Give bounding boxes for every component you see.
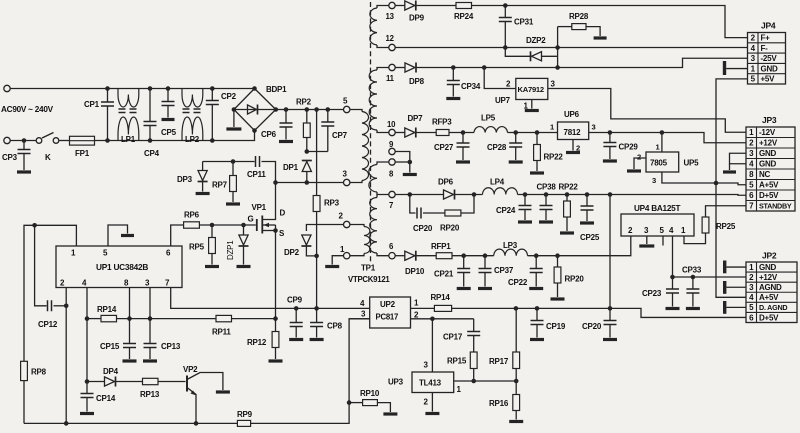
svg-text:D+5V: D+5V xyxy=(759,191,779,200)
svg-text:DP2: DP2 xyxy=(284,248,300,257)
svg-text:RP10: RP10 xyxy=(360,389,380,398)
svg-text:CP28: CP28 xyxy=(487,143,507,152)
svg-text:RP22: RP22 xyxy=(544,153,564,162)
svg-text:CP12: CP12 xyxy=(38,320,58,329)
svg-text:CP22: CP22 xyxy=(508,278,528,287)
svg-text:CP24: CP24 xyxy=(496,206,516,215)
svg-text:CP17: CP17 xyxy=(443,333,463,342)
svg-text:DP9: DP9 xyxy=(409,14,425,23)
svg-text:STANDBY: STANDBY xyxy=(759,202,792,211)
svg-text:GND: GND xyxy=(759,160,777,169)
svg-text:VP2: VP2 xyxy=(183,365,198,374)
svg-text:CP1: CP1 xyxy=(84,100,100,109)
svg-text:RP24: RP24 xyxy=(454,12,474,21)
svg-text:GND: GND xyxy=(761,64,779,73)
svg-text:3: 3 xyxy=(592,123,596,132)
svg-text:AGND: AGND xyxy=(759,283,782,292)
svg-text:-12V: -12V xyxy=(759,128,776,137)
svg-text:CP31: CP31 xyxy=(514,18,534,27)
svg-text:CP29: CP29 xyxy=(619,143,639,152)
svg-text:CP6: CP6 xyxy=(261,130,277,139)
svg-text:RP25: RP25 xyxy=(716,222,736,231)
svg-text:2: 2 xyxy=(637,153,641,162)
svg-text:CP14: CP14 xyxy=(96,394,116,403)
svg-text:RFP1: RFP1 xyxy=(431,242,451,251)
svg-text:RP12: RP12 xyxy=(247,338,267,347)
svg-text:RP20: RP20 xyxy=(440,224,460,233)
svg-text:TP1: TP1 xyxy=(361,264,376,273)
svg-text:DP7: DP7 xyxy=(408,114,424,123)
svg-text:LP3: LP3 xyxy=(503,241,518,250)
svg-text:CP9: CP9 xyxy=(287,296,303,305)
svg-text:RP20: RP20 xyxy=(565,275,585,284)
svg-text:RP2: RP2 xyxy=(296,98,312,107)
svg-text:UP1 UC3842B: UP1 UC3842B xyxy=(96,262,148,272)
svg-text:CP20: CP20 xyxy=(413,224,433,233)
svg-text:RP17: RP17 xyxy=(489,357,509,366)
svg-text:D. AGND: D. AGND xyxy=(759,303,787,312)
svg-text:TL413: TL413 xyxy=(419,379,442,388)
svg-text:D: D xyxy=(280,209,286,218)
svg-text:DP3: DP3 xyxy=(177,175,193,184)
svg-text:DP1: DP1 xyxy=(283,163,299,172)
svg-text:CP34: CP34 xyxy=(461,82,481,91)
svg-text:GND: GND xyxy=(759,263,777,272)
svg-text:JP3: JP3 xyxy=(762,115,777,125)
svg-text:LP2: LP2 xyxy=(185,135,200,144)
svg-text:DZP2: DZP2 xyxy=(526,36,546,45)
svg-text:13: 13 xyxy=(386,12,395,21)
svg-text:DZP1: DZP1 xyxy=(226,240,235,260)
svg-text:K: K xyxy=(45,153,51,162)
svg-text:UP6: UP6 xyxy=(564,110,580,119)
svg-text:KA7912: KA7912 xyxy=(518,85,544,94)
svg-text:RP8: RP8 xyxy=(31,368,47,377)
svg-text:7812: 7812 xyxy=(564,128,582,137)
svg-text:RP11: RP11 xyxy=(212,328,231,337)
svg-text:UP2: UP2 xyxy=(380,300,396,309)
svg-text:PC817: PC817 xyxy=(376,313,399,322)
svg-text:CP3: CP3 xyxy=(2,153,18,162)
svg-text:LP4: LP4 xyxy=(490,178,505,187)
svg-text:CP25: CP25 xyxy=(580,233,600,242)
svg-text:RP22: RP22 xyxy=(559,183,579,192)
svg-text:VP1: VP1 xyxy=(252,203,267,212)
svg-text:CP20: CP20 xyxy=(582,322,602,331)
svg-text:RP16: RP16 xyxy=(489,399,509,408)
svg-text:7805: 7805 xyxy=(650,159,668,168)
svg-text:+12V: +12V xyxy=(759,139,778,148)
svg-text:12: 12 xyxy=(386,34,395,43)
svg-text:RP13: RP13 xyxy=(140,390,160,399)
svg-text:UP3: UP3 xyxy=(388,378,404,387)
svg-text:11: 11 xyxy=(386,74,395,83)
svg-text:GND: GND xyxy=(759,149,777,158)
svg-text:LP5: LP5 xyxy=(481,114,496,123)
svg-text:CP4: CP4 xyxy=(144,149,160,158)
svg-text:A+5V: A+5V xyxy=(759,293,779,302)
svg-text:CP23: CP23 xyxy=(642,289,662,298)
svg-text:G: G xyxy=(248,215,254,224)
svg-text:RP7: RP7 xyxy=(212,181,228,190)
svg-text:RP14: RP14 xyxy=(97,305,117,314)
svg-text:DP8: DP8 xyxy=(409,77,425,86)
svg-text:CP11: CP11 xyxy=(247,170,266,179)
svg-text:CP15: CP15 xyxy=(100,342,120,351)
svg-text:UP7: UP7 xyxy=(495,96,511,105)
svg-text:D+5V: D+5V xyxy=(759,313,779,322)
svg-text:F-: F- xyxy=(761,44,769,53)
svg-text:CP33: CP33 xyxy=(682,266,702,275)
svg-text:DP10: DP10 xyxy=(405,267,425,276)
svg-text:CP5: CP5 xyxy=(161,128,177,137)
svg-text:CP21: CP21 xyxy=(434,270,454,279)
svg-text:-25V: -25V xyxy=(761,54,778,63)
svg-text:CP37: CP37 xyxy=(494,266,514,275)
svg-text:A+5V: A+5V xyxy=(759,181,779,190)
svg-text:CP7: CP7 xyxy=(332,131,348,140)
svg-text:7: 7 xyxy=(389,201,393,210)
svg-text:NC: NC xyxy=(759,170,771,179)
svg-text:DP4: DP4 xyxy=(103,367,119,376)
svg-text:10: 10 xyxy=(387,120,396,129)
svg-text:+12V: +12V xyxy=(759,273,778,282)
svg-text:RP28: RP28 xyxy=(569,12,589,21)
svg-text:JP2: JP2 xyxy=(762,251,777,261)
svg-text:F+: F+ xyxy=(761,33,771,42)
svg-text:RP15: RP15 xyxy=(447,357,467,366)
svg-text:CP2: CP2 xyxy=(221,92,237,101)
svg-text:RP5: RP5 xyxy=(189,243,205,252)
svg-text:3: 3 xyxy=(652,176,656,185)
svg-text:VTPCK9121: VTPCK9121 xyxy=(348,275,390,284)
svg-text:CP27: CP27 xyxy=(434,143,454,152)
svg-text:UP4 BA125T: UP4 BA125T xyxy=(634,204,680,213)
svg-text:RP6: RP6 xyxy=(184,211,200,220)
svg-text:RFP3: RFP3 xyxy=(432,118,452,127)
svg-text:LP1: LP1 xyxy=(121,135,136,144)
svg-text:CP8: CP8 xyxy=(327,322,343,331)
svg-text:DP6: DP6 xyxy=(438,178,454,187)
svg-text:RP3: RP3 xyxy=(324,199,340,208)
svg-text:AC90V ~ 240V: AC90V ~ 240V xyxy=(1,105,54,114)
svg-text:CP13: CP13 xyxy=(161,342,181,351)
svg-text:BDP1: BDP1 xyxy=(266,85,287,94)
svg-text:FP1: FP1 xyxy=(75,149,90,158)
svg-text:RP9: RP9 xyxy=(237,410,253,419)
svg-text:CP19: CP19 xyxy=(546,322,566,331)
svg-text:+5V: +5V xyxy=(761,75,776,84)
svg-text:CP38: CP38 xyxy=(537,183,557,192)
svg-text:RP14: RP14 xyxy=(431,293,451,302)
svg-text:UP5: UP5 xyxy=(684,159,700,168)
svg-text:JP4: JP4 xyxy=(761,21,776,31)
